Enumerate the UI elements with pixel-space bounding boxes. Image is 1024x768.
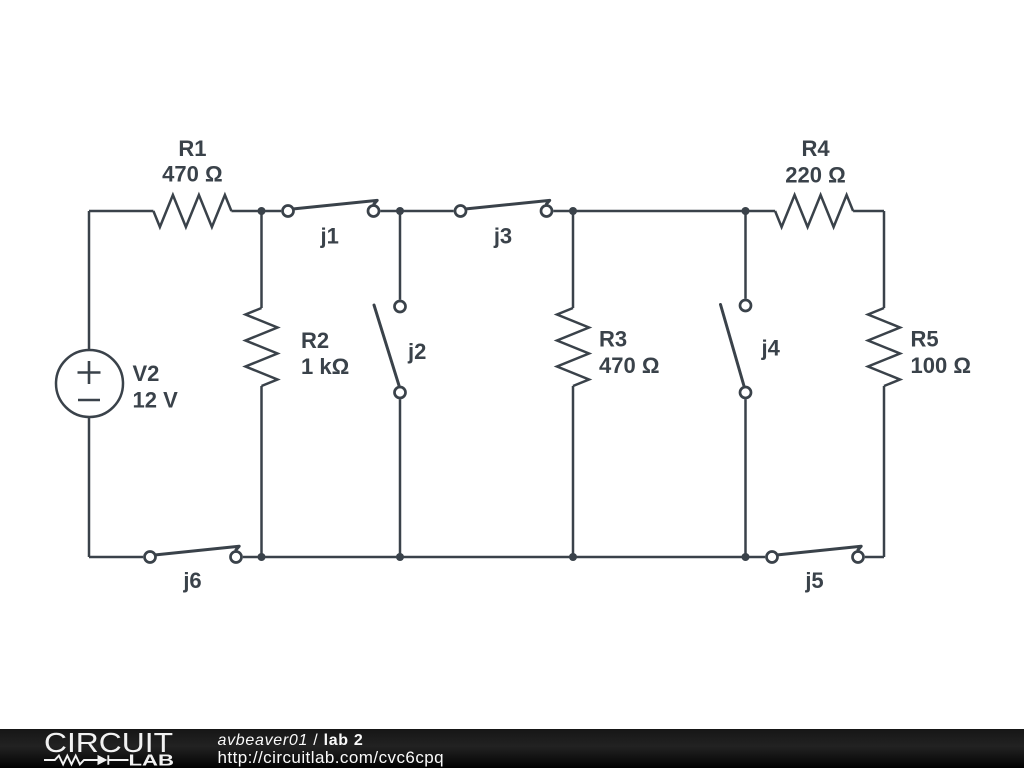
svg-text:R3: R3 [599, 326, 627, 351]
wire left rail above V2 [88, 211, 91, 350]
CircuitLab logo resistor-diode glyph [44, 755, 129, 765]
node top node D (j4/R4) (junction dot) [742, 207, 750, 215]
wire j4 branch upper [744, 211, 747, 299]
svg-text:j3: j3 [493, 224, 512, 249]
svg-text:R2: R2 [301, 328, 329, 353]
resistor R1 470 Ohm [153, 136, 231, 227]
wire j2 branch upper [399, 211, 402, 300]
wire j4 branch lower [744, 399, 747, 557]
resistor R3 470 Ohm [557, 308, 659, 386]
wire bottom rail j6 to j5 [243, 556, 765, 559]
svg-text:470 Ω: 470 Ω [599, 353, 659, 378]
svg-text:j2: j2 [407, 339, 426, 364]
wire R2 branch lower [260, 386, 263, 557]
wire bottom rail j5 to right corner [865, 556, 884, 559]
switch j3 (closed, top rail) [455, 200, 552, 248]
svg-text:100 Ω: 100 Ω [911, 353, 971, 378]
switch j2 (open, vertical branch) [374, 301, 426, 398]
node top node A (R1/R2/j1) (junction dot) [258, 207, 266, 215]
resistor R5 100 Ohm [868, 308, 971, 386]
node top node C (j3/R3) (junction dot) [569, 207, 577, 215]
svg-text:avbeaver01 / lab 2: avbeaver01 / lab 2 [218, 732, 364, 749]
wire j2 branch lower [399, 399, 402, 557]
switch j6 (closed, bottom rail) [145, 546, 242, 593]
svg-text:j6: j6 [182, 568, 201, 593]
wire bottom rail left corner to j6 [89, 556, 143, 559]
node bottom node G (R3) (junction dot) [569, 553, 577, 561]
wire R3 branch upper [572, 211, 575, 308]
resistor R4 220 Ohm [775, 136, 853, 227]
wire left rail below V2 [88, 417, 91, 557]
svg-text:V2: V2 [133, 361, 160, 386]
node top node B (j1/j2/j3) (junction dot) [396, 207, 404, 215]
switch j4 (open, vertical branch) [721, 300, 781, 398]
wire top rail j3 to R4 [553, 210, 775, 213]
svg-text:470 Ω: 470 Ω [162, 162, 222, 187]
resistor R2 1 kOhm [246, 308, 350, 386]
wire right rail above R5 [883, 211, 886, 308]
wire R2 branch upper [260, 211, 263, 308]
switch j5 (closed, bottom rail) [767, 546, 864, 593]
switch j1 (closed, top rail) [283, 200, 380, 248]
svg-text:R5: R5 [911, 326, 939, 351]
svg-text:j4: j4 [761, 336, 781, 361]
node bottom node H (j4/j5) (junction dot) [742, 553, 750, 561]
svg-text:LAB: LAB [129, 753, 175, 768]
svg-text:j5: j5 [804, 568, 823, 593]
wire top rail left of R1 [89, 210, 153, 213]
wire top rail R4 to right corner [853, 210, 884, 213]
svg-text:http://circuitlab.com/cvc6cpq: http://circuitlab.com/cvc6cpq [218, 748, 445, 767]
svg-text:R1: R1 [178, 136, 206, 161]
voltage source V2 12 V [56, 350, 178, 417]
svg-text:j1: j1 [320, 224, 339, 249]
wire top rail j1 to j3 [380, 210, 453, 213]
node bottom node F (j2) (junction dot) [396, 553, 404, 561]
svg-text:220 Ω: 220 Ω [785, 163, 845, 188]
wire top rail R1 to j1 [231, 210, 281, 213]
svg-text:1 kΩ: 1 kΩ [301, 354, 349, 379]
wire right rail below R5 [883, 386, 886, 557]
svg-text:R4: R4 [801, 136, 830, 161]
wire R3 branch lower [572, 386, 575, 557]
svg-text:12 V: 12 V [133, 388, 179, 413]
node bottom node E (R2/j6) (junction dot) [258, 553, 266, 561]
